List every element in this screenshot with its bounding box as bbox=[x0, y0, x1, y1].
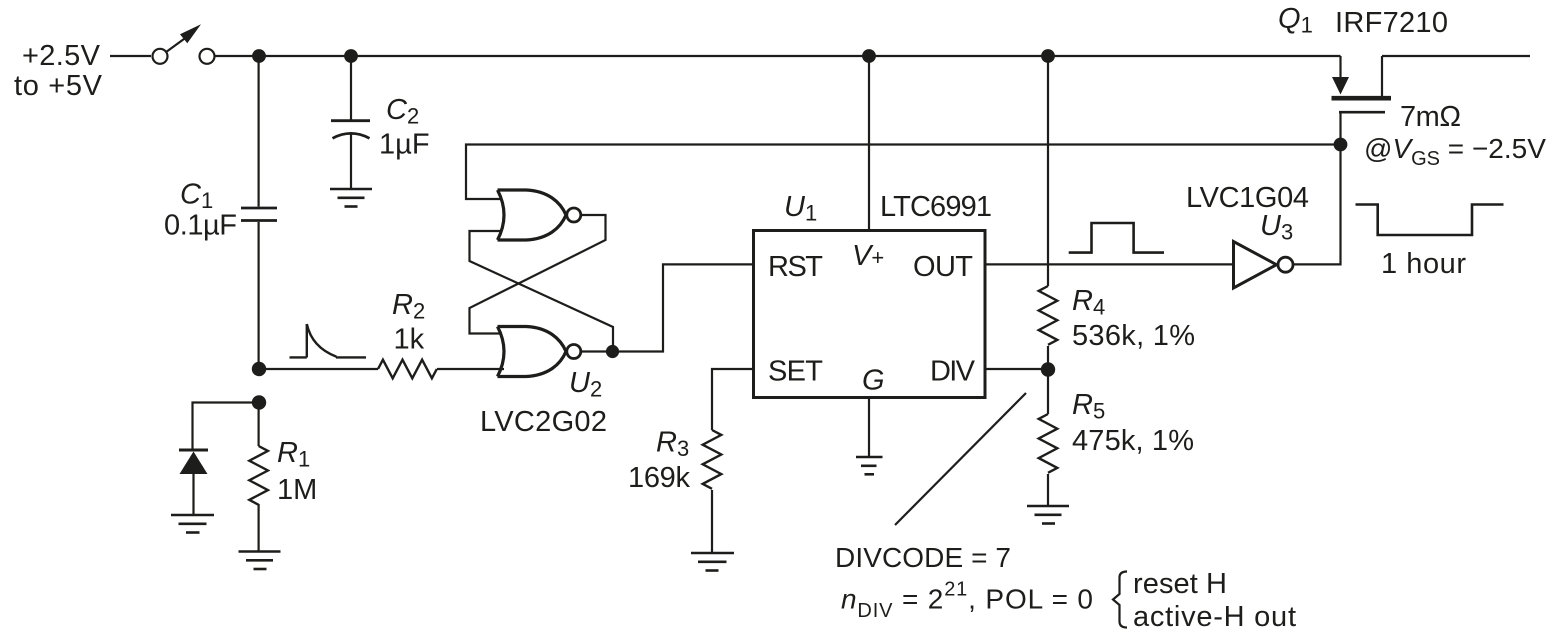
label note reset H / active-H out bbox=[1133, 568, 1296, 633]
pin G bbox=[862, 365, 885, 397]
label R2 bbox=[392, 289, 425, 324]
ground below R3 bbox=[691, 553, 734, 571]
svg-text:+2.5V: +2.5V bbox=[22, 40, 101, 72]
label U2 part LVC2G02 bbox=[480, 406, 607, 438]
wire R1 to ground bbox=[258, 504, 260, 551]
svg-text:to +5V: to +5V bbox=[14, 70, 103, 102]
resistor R1 bbox=[249, 446, 268, 505]
label R2 value 1k bbox=[394, 324, 425, 356]
wire C2 upper lead bbox=[350, 56, 352, 120]
pin SET bbox=[768, 356, 823, 388]
switch S1 on-off bbox=[153, 24, 215, 64]
svg-text:169k: 169k bbox=[628, 462, 691, 494]
wire diode branch bbox=[193, 403, 260, 449]
wire U3 output to Q1 gate bbox=[1294, 113, 1341, 264]
label U1 bbox=[784, 191, 817, 226]
pointer line to DIV note bbox=[895, 393, 1026, 525]
svg-text:475k, 1%: 475k, 1% bbox=[1072, 425, 1194, 457]
wire Q1 source to load bbox=[1382, 55, 1530, 57]
svg-text:LVC2G02: LVC2G02 bbox=[480, 406, 607, 438]
svg-text:IRF7210: IRF7210 bbox=[1335, 7, 1448, 39]
svg-text:U2: U2 bbox=[569, 367, 602, 402]
svg-text:1µF: 1µF bbox=[379, 129, 430, 161]
label U1 part LTC6991 bbox=[880, 191, 992, 223]
label R1 bbox=[277, 437, 310, 472]
label U3 part LVC1G04 bbox=[1186, 182, 1309, 214]
label R5 value 475k 1% bbox=[1072, 425, 1194, 457]
node junction RC to R2 bbox=[252, 362, 266, 376]
wire cross coupling U2b output to U2a input bbox=[470, 231, 614, 352]
wire rail to R4 bbox=[1047, 56, 1049, 286]
label R5 bbox=[1072, 389, 1105, 424]
wire feedback net from Q1 gate to U2a input bbox=[466, 145, 1341, 200]
svg-text:R1: R1 bbox=[277, 437, 310, 472]
label U3 bbox=[1260, 210, 1293, 245]
svg-text:C2: C2 bbox=[386, 94, 419, 129]
wire V+ pin to rail bbox=[868, 56, 870, 231]
wire DIV pin to node bbox=[985, 368, 1048, 370]
wire node to R1 bbox=[258, 403, 260, 447]
label U2 bbox=[569, 367, 602, 402]
svg-text:1M: 1M bbox=[277, 474, 317, 506]
svg-text:OUT: OUT bbox=[913, 251, 973, 283]
wire G pin to ground bbox=[868, 398, 870, 457]
svg-text:R2: R2 bbox=[392, 289, 425, 324]
svg-text:V+: V+ bbox=[852, 240, 884, 272]
svg-text:nDIV = 221, POL = 0: nDIV = 221, POL = 0 bbox=[841, 579, 1093, 623]
svg-text:DIVCODE = 7: DIVCODE = 7 bbox=[835, 542, 1011, 573]
svg-text:0.1µF: 0.1µF bbox=[164, 210, 237, 242]
pin DIV bbox=[930, 356, 976, 388]
wire OUT pin to inverter U3 bbox=[985, 263, 1234, 265]
nor-gate U2b bbox=[498, 327, 581, 377]
resistor R4 bbox=[1039, 286, 1058, 345]
svg-text:SET: SET bbox=[768, 356, 823, 388]
label Q1 Rds 7mOhm bbox=[1400, 101, 1461, 133]
svg-text:1k: 1k bbox=[394, 324, 425, 356]
label C1 value 0.1uF bbox=[164, 210, 237, 242]
node supply input +2.5V to +5V bbox=[14, 40, 103, 102]
op-amp U1 LTC6991 box bbox=[754, 231, 986, 398]
wire top supply rail bbox=[215, 55, 1341, 57]
label R3 bbox=[656, 427, 689, 462]
label R4 value 536k 1% bbox=[1072, 320, 1195, 352]
node junction diode tap bbox=[252, 395, 266, 409]
nor-gate U2a bbox=[498, 190, 581, 240]
resistor R2 bbox=[378, 360, 437, 379]
wire supply lead to switch bbox=[110, 55, 151, 57]
node junction R4 tap bbox=[1041, 49, 1055, 63]
label R3 value 169k bbox=[628, 462, 691, 494]
pin OUT bbox=[913, 251, 973, 283]
waveform RC spike pulse bbox=[290, 324, 367, 357]
wire C2 lower lead bbox=[350, 134, 352, 188]
svg-text:U1: U1 bbox=[784, 191, 817, 226]
label note nDIV = 2^21 POL = 0 bbox=[841, 579, 1093, 623]
node junction V+ tap bbox=[862, 49, 876, 63]
pin RST bbox=[768, 251, 823, 283]
svg-text:G: G bbox=[862, 365, 885, 397]
capacitor C2 bbox=[331, 121, 370, 139]
svg-text:RST: RST bbox=[768, 251, 823, 283]
wire DIV node to R5 bbox=[1047, 369, 1049, 414]
wire R3 to ground bbox=[711, 490, 713, 553]
pin V+ bbox=[852, 240, 884, 272]
svg-text:7mΩ: 7mΩ bbox=[1400, 101, 1461, 133]
ground below R1 bbox=[239, 552, 281, 570]
label R4 bbox=[1072, 285, 1105, 320]
inverter U3 bbox=[1234, 242, 1294, 289]
label C2 value 1uF bbox=[379, 129, 430, 161]
node junction U2b output bbox=[606, 345, 619, 358]
wire C1 lower lead bbox=[258, 222, 260, 369]
svg-text:LVC1G04: LVC1G04 bbox=[1186, 182, 1309, 214]
label R1 value 1M bbox=[277, 474, 317, 506]
wire node to R2 bbox=[266, 368, 378, 370]
waveform output 1 hour low pulse bbox=[1356, 205, 1504, 236]
label Q1 bbox=[1278, 3, 1313, 38]
waveform OUT high pulse bbox=[1069, 223, 1164, 253]
brace for note bbox=[1113, 572, 1127, 628]
wire R4 to DIV node bbox=[1047, 346, 1049, 369]
label note DIVCODE = 7 bbox=[835, 542, 1011, 573]
node junction Q1 gate feedback bbox=[1334, 138, 1348, 152]
svg-text:R4: R4 bbox=[1072, 285, 1105, 320]
capacitor C1 bbox=[241, 208, 277, 221]
svg-text:1 hour: 1 hour bbox=[1381, 248, 1466, 280]
wire C1 upper lead bbox=[258, 56, 260, 207]
svg-text:reset H: reset H bbox=[1133, 568, 1227, 600]
wire R2 to U2b input bbox=[437, 368, 504, 370]
label Q1 at VGS = -2.5V bbox=[1364, 133, 1546, 170]
label waveform 1 hour bbox=[1381, 248, 1466, 280]
svg-text:U3: U3 bbox=[1260, 210, 1293, 245]
ground below G pin bbox=[856, 457, 883, 474]
node junction C2 tap bbox=[344, 49, 358, 63]
wire SET pin to R3 bbox=[712, 369, 754, 430]
wire U2b output to RST pin bbox=[581, 264, 754, 351]
label Q1 part IRF7210 bbox=[1335, 7, 1448, 39]
svg-text:R3: R3 bbox=[656, 427, 689, 462]
label C2 bbox=[386, 94, 419, 129]
ground below C2 bbox=[330, 189, 372, 207]
ground below R5 bbox=[1027, 506, 1069, 524]
wire R5 to ground bbox=[1047, 474, 1049, 506]
svg-text:Q1: Q1 bbox=[1278, 3, 1313, 38]
resistor R3 bbox=[703, 430, 722, 489]
label C1 bbox=[180, 179, 213, 214]
svg-text:536k, 1%: 536k, 1% bbox=[1072, 320, 1195, 352]
wire cross coupling U2a output to U2b input bbox=[470, 215, 606, 334]
svg-text:C1: C1 bbox=[180, 179, 213, 214]
svg-text:DIV: DIV bbox=[930, 356, 976, 388]
transistor Q1 PMOS bbox=[1332, 56, 1392, 112]
svg-text:LTC6991: LTC6991 bbox=[880, 191, 992, 223]
resistor R5 bbox=[1039, 414, 1058, 473]
svg-text:@VGS = −2.5V: @VGS = −2.5V bbox=[1364, 133, 1546, 170]
node junction DIV bbox=[1041, 362, 1055, 376]
node junction C1 tap bbox=[252, 49, 266, 63]
svg-text:R5: R5 bbox=[1072, 389, 1105, 424]
diode D1 clamp bbox=[179, 450, 208, 514]
svg-text:active-H out: active-H out bbox=[1133, 601, 1296, 633]
ground below diode D1 bbox=[171, 515, 214, 533]
